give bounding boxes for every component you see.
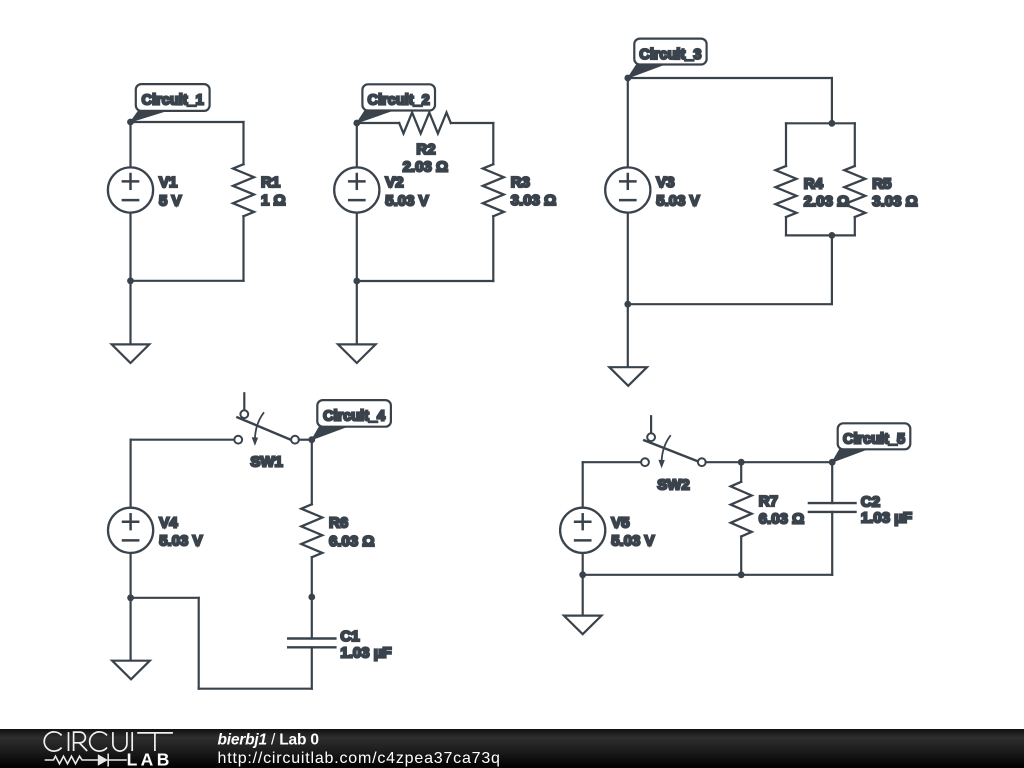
wire Circuit_5 left rail (V5) (582, 462, 584, 575)
svg-text:Circuit_1: Circuit_1 (142, 92, 204, 108)
wire R6 to C1 (311, 557, 313, 638)
svg-text:3.03 Ω: 3.03 Ω (511, 192, 556, 209)
svg-text:3.03 Ω: 3.03 Ω (872, 193, 917, 210)
svg-text:5.03 V: 5.03 V (656, 192, 699, 209)
CircuitLab logo wordmark CIRCUIT (44, 732, 173, 751)
label R6 value 6.03 Ω (329, 533, 374, 550)
label C1 value 1.03 µF (340, 645, 391, 662)
CircuitLab logo resistor-diode glyph (46, 754, 127, 765)
svg-text:1.03 µF: 1.03 µF (340, 645, 391, 662)
resistor R1 (233, 164, 254, 216)
wire Circuit_4 R6 branch upper (311, 440, 313, 505)
svg-text:V1: V1 (159, 174, 177, 191)
wire R7 branch upper (740, 462, 742, 482)
label C2 value 1.03 µF (861, 510, 912, 527)
ground (Circuit_4) (112, 661, 150, 680)
svg-text:5.03 V: 5.03 V (385, 192, 428, 209)
svg-text:Circuit_2: Circuit_2 (368, 93, 430, 109)
node label Circuit_3 (balloon flag) (628, 39, 707, 78)
svg-text:1.03 µF: 1.03 µF (861, 510, 912, 527)
svg-text:V2: V2 (385, 174, 403, 191)
ground (Circuit_3) (609, 367, 647, 386)
wire Circuit_3 parallel top bar (786, 122, 855, 124)
wire Circuit_3 right drop to parallel pair (831, 78, 833, 123)
svg-text:SW1: SW1 (250, 453, 283, 470)
resistor R6 (301, 504, 322, 557)
ground (Circuit_5) (564, 616, 602, 635)
label V1 name (159, 174, 177, 191)
svg-text:http://circuitlab.com/c4zpea37: http://circuitlab.com/c4zpea37ca73q (218, 750, 501, 767)
label R3 value 3.03 Ω (511, 192, 556, 209)
wire Circuit_4 bottom return (131, 598, 312, 689)
wire Circuit_1 bottom (131, 280, 244, 282)
footer title: bierbj1 / Lab 0 (218, 732, 319, 749)
svg-text:R4: R4 (804, 176, 824, 193)
svg-text:Circuit_3: Circuit_3 (639, 47, 701, 63)
wire R5 branch upper (854, 123, 856, 166)
node R6/C1 junction (308, 594, 315, 601)
node R7 top junction (738, 459, 745, 466)
label R2 value 2.03 Ω (403, 159, 448, 176)
wire R4 branch upper (785, 123, 787, 166)
svg-text:2.03 Ω: 2.03 Ω (403, 159, 448, 176)
svg-text:bierbj1 / Lab 0: bierbj1 / Lab 0 (218, 732, 319, 749)
wire Circuit_1 right rail lower (242, 216, 244, 281)
footer bar background (0, 729, 1024, 768)
label V3 name (656, 174, 674, 191)
node Circuit_5 top junction (C2) (829, 459, 836, 466)
wire Circuit_5 top left (V5 to SW2) (583, 461, 641, 463)
label SW2 name (657, 477, 690, 494)
wire Circuit_1 left rail (V1) (129, 122, 131, 281)
wire Circuit_2 right rail upper (492, 123, 494, 164)
wire SW2 to R7 node (706, 461, 742, 463)
label V5 name (611, 514, 629, 531)
svg-text:5.03 V: 5.03 V (159, 533, 202, 550)
label R7 name (759, 493, 778, 510)
svg-text:R6: R6 (329, 515, 348, 532)
resistor R2 (399, 113, 451, 134)
svg-text:1 Ω: 1 Ω (261, 192, 286, 209)
label C1 name (340, 628, 359, 645)
svg-text:R1: R1 (261, 174, 280, 191)
wire Circuit_3 bottom (628, 303, 832, 305)
svg-text:SW2: SW2 (657, 477, 690, 494)
wire Circuit_2 left rail (V2) (356, 123, 358, 281)
wire R5 branch lower (854, 217, 856, 235)
node label Circuit_5 (balloon flag) (832, 423, 910, 462)
wire C1 bottom drop (311, 647, 313, 688)
node label Circuit_1 (balloon flag) (131, 84, 210, 122)
wire Circuit_1 right rail upper (242, 122, 244, 164)
wire Circuit_5 bottom (583, 574, 833, 576)
node Circuit_2 bottom junction (353, 278, 360, 285)
svg-text:6.03 Ω: 6.03 Ω (329, 533, 374, 550)
wire Circuit_1 to ground (129, 281, 131, 345)
wire Circuit_4 top left (V4 to SW1) (131, 439, 235, 441)
wire Circuit_3 right rail lower (831, 235, 833, 304)
wire SW1 to node (299, 439, 312, 441)
node Circuit_1 top junction (127, 119, 134, 126)
wire Circuit_2 top left (node to R2) (357, 122, 399, 124)
label R5 name (872, 176, 891, 193)
svg-text:C2: C2 (861, 493, 880, 510)
label R6 name (329, 515, 348, 532)
wire R7 node to C2 node (741, 461, 832, 463)
resistor R4 (776, 166, 797, 217)
capacitor C2 (809, 503, 856, 512)
svg-text:5.03 V: 5.03 V (611, 533, 654, 550)
wire C2 branch lower (831, 512, 833, 575)
wire Circuit_3 top (628, 77, 832, 79)
svg-text:V3: V3 (656, 174, 674, 191)
label R1 value 1 Ω (261, 192, 286, 209)
CircuitLab logo wordmark LAB (127, 750, 173, 768)
label R3 name (511, 174, 530, 191)
label R4 value 2.03 Ω (804, 193, 849, 210)
resistor R5 (844, 166, 865, 217)
svg-text:V4: V4 (159, 514, 178, 531)
wire Circuit_3 parallel bottom bar (786, 234, 855, 236)
node Circuit_3 bottom junction (624, 301, 631, 308)
wire Circuit_3 to ground (627, 304, 629, 367)
capacitor C1 (288, 639, 335, 648)
label R2 name (416, 141, 435, 158)
label V1 value 5 V (159, 192, 182, 209)
label R7 value 6.03 Ω (759, 511, 804, 528)
wire R7 branch lower (740, 537, 742, 575)
label V2 name (385, 174, 403, 191)
voltage source V3 (605, 167, 650, 212)
node label Circuit_4 (balloon flag) (312, 400, 391, 440)
node parallel top junction (829, 120, 836, 127)
wire Circuit_2 top right (R2 to R3) (451, 122, 494, 124)
wire Circuit_4 to ground (130, 598, 132, 661)
wire Circuit_4 left rail (V4) (130, 440, 132, 598)
node R7 bottom junction (738, 571, 745, 578)
svg-text:R2: R2 (416, 141, 435, 158)
label V2 value 5.03 V (385, 192, 428, 209)
switch SW2 (641, 416, 706, 468)
label R1 name (261, 174, 280, 191)
resistor R7 (731, 482, 752, 537)
node Circuit_5 bottom-left junction (579, 571, 586, 578)
node Circuit_2 top junction (353, 120, 360, 127)
voltage source V5 (560, 508, 605, 553)
label V5 value 5.03 V (611, 533, 654, 550)
footer url (218, 750, 501, 767)
resistor R3 (483, 164, 504, 216)
svg-text:V5: V5 (611, 514, 629, 531)
wire Circuit_2 to ground (356, 281, 358, 344)
voltage source V4 (108, 508, 153, 553)
label R4 name (804, 176, 824, 193)
wire C2 branch upper (831, 462, 833, 503)
label V4 name (159, 514, 178, 531)
ground (Circuit_2) (338, 344, 376, 363)
label C2 name (861, 493, 880, 510)
voltage source V2 (334, 167, 379, 212)
label V3 value 5.03 V (656, 192, 699, 209)
node Circuit_1 bottom junction (127, 277, 134, 284)
label V4 value 5.03 V (159, 533, 202, 550)
wire Circuit_3 left rail (V3) (627, 78, 629, 304)
wire Circuit_1 top (node to R1) (131, 121, 244, 123)
node Circuit_3 top junction (624, 75, 631, 82)
node parallel bottom junction (829, 232, 836, 239)
node Circuit_4 bottom-left junction (127, 594, 134, 601)
svg-text:C1: C1 (340, 628, 359, 645)
svg-text:5 V: 5 V (159, 192, 182, 209)
wire Circuit_2 bottom (357, 280, 494, 282)
ground (Circuit_1) (112, 344, 150, 363)
voltage source V1 (108, 167, 153, 212)
svg-text:R5: R5 (872, 176, 891, 193)
node Circuit_4 top junction (308, 436, 315, 443)
svg-text:LAB: LAB (127, 750, 173, 768)
svg-text:R3: R3 (511, 174, 530, 191)
svg-text:Circuit_4: Circuit_4 (323, 408, 385, 424)
svg-text:R7: R7 (759, 493, 778, 510)
svg-text:6.03 Ω: 6.03 Ω (759, 511, 804, 528)
wire Circuit_2 right rail lower (492, 216, 494, 281)
node label Circuit_2 (balloon flag) (357, 84, 435, 123)
switch SW1 (234, 393, 299, 446)
svg-text:Circuit_5: Circuit_5 (843, 432, 905, 448)
wire Circuit_5 to ground (582, 575, 584, 616)
label SW1 name (250, 453, 283, 470)
wire R4 branch lower (785, 217, 787, 235)
svg-text:2.03 Ω: 2.03 Ω (804, 193, 849, 210)
label R5 value 3.03 Ω (872, 193, 917, 210)
